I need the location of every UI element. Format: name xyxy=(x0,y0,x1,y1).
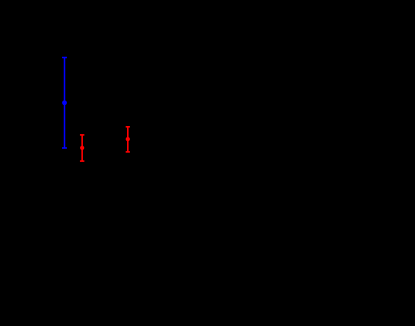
red top cap 2 xyxy=(126,126,130,128)
blue bottom cap xyxy=(62,147,67,149)
red data marker 1 xyxy=(80,146,84,150)
red data marker 2 xyxy=(126,137,130,141)
wire: blue vertical error line xyxy=(64,58,66,149)
wire: red vertical error line 2 xyxy=(127,127,129,152)
blue data marker xyxy=(62,100,67,105)
red top cap 1 xyxy=(80,134,84,136)
wire: red vertical error line 1 xyxy=(81,135,83,161)
red bottom cap 2 xyxy=(126,151,130,153)
blue errorbar point xyxy=(62,58,67,149)
red bottom cap 1 xyxy=(80,160,84,162)
blue top cap xyxy=(62,57,67,59)
red errorbar point 1 xyxy=(80,135,84,161)
red errorbar point 2 xyxy=(126,127,130,152)
